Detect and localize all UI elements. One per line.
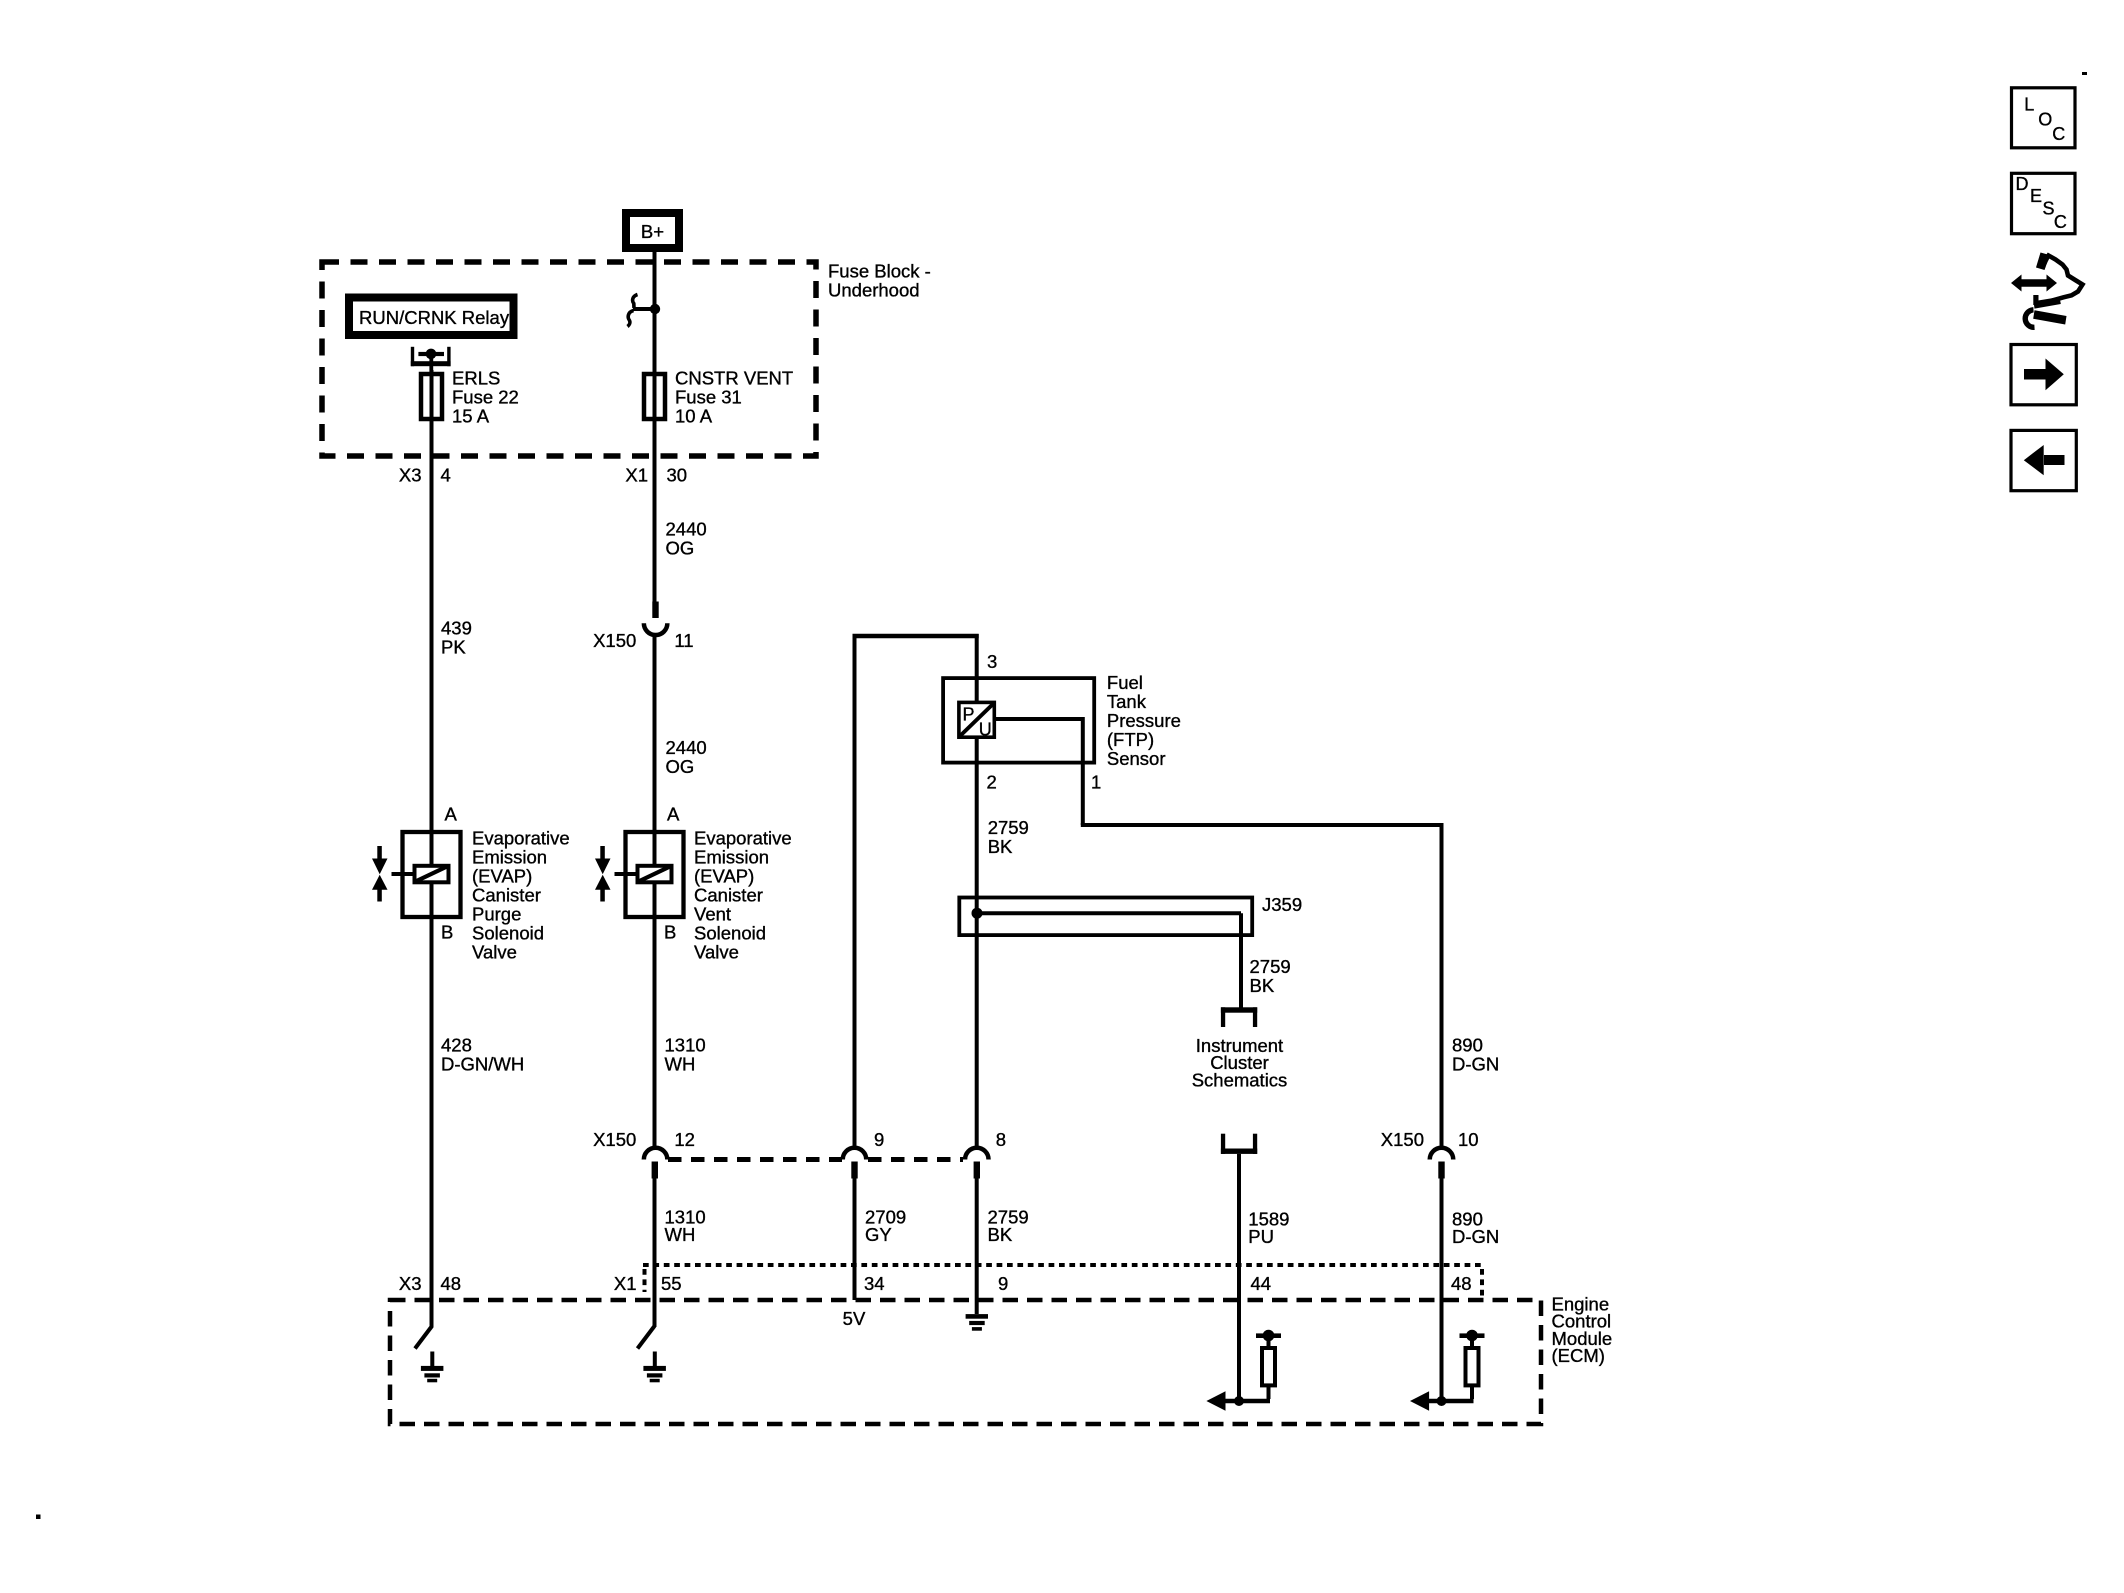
svg-text:D: D: [2016, 174, 2029, 194]
ECM driver switch pin X3-48: [415, 1326, 432, 1349]
svg-text:Purge: Purge: [472, 904, 521, 925]
svg-text:10: 10: [1458, 1129, 1479, 1150]
instrument cluster connector lower half: [1221, 1134, 1257, 1154]
svg-text:Schematics: Schematics: [1192, 1069, 1288, 1090]
svg-text:Emission: Emission: [472, 847, 547, 868]
svg-text:U: U: [979, 719, 992, 739]
svg-text:Fuse 31: Fuse 31: [675, 387, 742, 408]
pin label X3 4: [399, 465, 451, 486]
vent valve description text: [694, 828, 792, 963]
wire 2709 GY vertical (5V reference, X150-9 up and over to FTP pin 3): [853, 634, 979, 1147]
page speck top right: [2082, 72, 2087, 75]
svg-text:9: 9: [998, 1273, 1008, 1294]
wire 2709 GY lower (X150-9 to ECM 34): [855, 1178, 907, 1300]
svg-text:D-GN: D-GN: [1452, 1054, 1499, 1075]
svg-text:Fuel: Fuel: [1107, 672, 1143, 693]
fuse F22 ERLS 15A: [421, 368, 519, 427]
svg-text:B+: B+: [641, 221, 664, 242]
wire 428 D-GN/WH (purge valve to ECM X3-48): [432, 919, 525, 1327]
svg-text:Fuse 22: Fuse 22: [452, 387, 519, 408]
fuse block label: [828, 261, 931, 301]
svg-text:X150: X150: [1381, 1129, 1424, 1150]
ECM driver switch pin X1-55: [638, 1326, 655, 1349]
sidebar icon back arrow box: [2011, 430, 2076, 490]
svg-text:Canister: Canister: [694, 885, 763, 906]
svg-text:WH: WH: [665, 1054, 696, 1075]
connector X150 pin 8: [965, 1129, 1006, 1179]
sidebar icon LOC box: [2012, 88, 2076, 148]
svg-text:C: C: [2054, 212, 2067, 232]
FTP sensor description text: [1107, 672, 1181, 769]
ground inside ECM below X1-55: [643, 1352, 666, 1383]
svg-text:D-GN/WH: D-GN/WH: [441, 1054, 524, 1075]
B+ power feed box: [626, 213, 679, 248]
svg-text:A: A: [445, 804, 458, 825]
pull-up resistor at ECM pin 48: [1410, 1330, 1485, 1411]
svg-text:15 A: 15 A: [452, 406, 490, 427]
fuel tank pressure FTP sensor: [943, 678, 1094, 763]
svg-text:P: P: [963, 704, 975, 724]
pull-up resistor at ECM pin 44: [1206, 1330, 1281, 1411]
svg-text:2: 2: [987, 772, 997, 793]
svg-text:48: 48: [441, 1273, 462, 1294]
svg-text:PU: PU: [1248, 1226, 1274, 1247]
svg-text:4: 4: [441, 465, 451, 486]
svg-text:34: 34: [864, 1273, 885, 1294]
svg-text:Solenoid: Solenoid: [472, 923, 544, 944]
EVAP canister purge solenoid valve: [372, 830, 461, 943]
svg-text:BK: BK: [988, 1224, 1013, 1245]
purge valve description text: [472, 828, 570, 963]
splice J359: [959, 894, 1302, 1008]
svg-text:X3: X3: [399, 1273, 422, 1294]
svg-text:Sensor: Sensor: [1107, 748, 1166, 769]
svg-text:(EVAP): (EVAP): [694, 866, 754, 887]
svg-text:A: A: [667, 804, 680, 825]
wire 1310 WH upper label (vent valve to X150-12): [655, 919, 706, 1147]
ECM label text: [1552, 1294, 1613, 1367]
sidebar icon wrench/hand (how to use): [2011, 253, 2083, 328]
ground inside ECM at pin 9: [966, 1314, 988, 1331]
svg-text:2759: 2759: [988, 817, 1029, 838]
svg-text:J359: J359: [1262, 894, 1302, 915]
pin label X1 30: [625, 465, 687, 486]
svg-text:B: B: [664, 922, 676, 943]
svg-text:RUN/CRNK Relay: RUN/CRNK Relay: [359, 307, 510, 328]
relay RUN/CRNK box: [349, 298, 514, 336]
svg-text:(EVAP): (EVAP): [472, 866, 532, 887]
svg-text:2759: 2759: [1250, 956, 1291, 977]
svg-text:2440: 2440: [666, 519, 707, 540]
wire FTP pin 2 down (2759 BK): [977, 737, 1029, 1147]
connector X150 pin 9: [843, 1129, 885, 1179]
svg-text:X3: X3: [399, 465, 422, 486]
fuse F31 CNSTR VENT 10A: [644, 368, 793, 427]
svg-text:C: C: [2052, 124, 2065, 144]
svg-text:PK: PK: [441, 637, 466, 658]
svg-text:X150: X150: [593, 630, 636, 651]
svg-text:10 A: 10 A: [675, 406, 713, 427]
svg-text:BK: BK: [1250, 975, 1275, 996]
svg-text:2440: 2440: [666, 737, 707, 758]
svg-text:3: 3: [987, 651, 997, 672]
wire fuse31 down to connector X150-11: [653, 419, 657, 603]
wire 1310 WH lower (X150-12 to ECM X1-55): [655, 1178, 706, 1327]
wire B+ down to Fuse 31: [653, 252, 657, 372]
svg-text:9: 9: [874, 1129, 884, 1150]
svg-text:D-GN: D-GN: [1452, 1226, 1499, 1247]
svg-text:55: 55: [661, 1273, 682, 1294]
svg-text:Tank: Tank: [1107, 691, 1147, 712]
svg-text:Solenoid: Solenoid: [694, 923, 766, 944]
svg-text:(ECM): (ECM): [1552, 1345, 1605, 1366]
dotted ECM connector boundary line: [643, 1265, 1482, 1296]
wire FTP pin 1 to X150-10 (890 D-GN): [996, 717, 1442, 1147]
wire 1589 PU (cluster to ECM 44): [1239, 1154, 1289, 1401]
wire 2440 OG lower (X150-11 to vent valve): [655, 634, 707, 830]
svg-text:8: 8: [996, 1129, 1006, 1150]
connector X150 pin 11: [593, 602, 694, 652]
wire 2759 BK lower (X150-8 to ECM 9): [977, 1178, 1029, 1314]
engine control module dashed box: [390, 1300, 1541, 1424]
svg-text:X1: X1: [625, 465, 648, 486]
ground inside ECM below X3-48: [421, 1352, 444, 1383]
svg-text:(FTP): (FTP): [1107, 729, 1154, 750]
svg-text:Evaporative: Evaporative: [472, 828, 570, 849]
svg-text:E: E: [2030, 186, 2042, 206]
svg-text:1310: 1310: [665, 1035, 706, 1056]
svg-text:OG: OG: [666, 538, 695, 559]
sidebar icon forward arrow box: [2011, 345, 2076, 405]
svg-text:Emission: Emission: [694, 847, 769, 868]
svg-text:GY: GY: [865, 1224, 892, 1245]
svg-text:30: 30: [667, 465, 688, 486]
page speck bottom left: [36, 1515, 41, 1520]
relay contact symbol: [411, 347, 451, 373]
connector X150 pin 12: [593, 1129, 695, 1179]
svg-text:44: 44: [1251, 1273, 1272, 1294]
dashed connector line X150 row: [668, 1157, 842, 1162]
svg-text:1: 1: [1091, 772, 1101, 793]
svg-text:428: 428: [441, 1035, 472, 1056]
svg-text:Underhood: Underhood: [828, 280, 920, 301]
svg-text:WH: WH: [665, 1224, 696, 1245]
sidebar icon DESC box: [2012, 173, 2076, 233]
svg-text:ERLS: ERLS: [452, 368, 500, 389]
fuse block underhood dashed box: [322, 262, 816, 456]
instrument cluster schematics text: [1192, 1035, 1288, 1090]
wire 890 D-GN lower (X150-10 to ECM 48): [1442, 1178, 1500, 1401]
svg-text:Valve: Valve: [694, 942, 739, 963]
svg-text:890: 890: [1452, 1035, 1483, 1056]
svg-text:X1: X1: [614, 1273, 637, 1294]
svg-text:11: 11: [674, 630, 693, 651]
svg-text:Canister: Canister: [472, 885, 541, 906]
wire 439 PK (fuse 22 to purge valve): [432, 421, 472, 830]
instrument cluster connector upper half: [1221, 1007, 1257, 1027]
svg-text:Valve: Valve: [472, 942, 517, 963]
svg-text:Fuse Block -: Fuse Block -: [828, 261, 931, 282]
EVAP canister vent solenoid valve: [595, 830, 684, 943]
svg-text:48: 48: [1451, 1273, 1472, 1294]
svg-text:CNSTR VENT: CNSTR VENT: [675, 368, 793, 389]
svg-text:OG: OG: [666, 756, 695, 777]
svg-text:Vent: Vent: [694, 904, 731, 925]
connector X150 pin 10: [1381, 1129, 1479, 1179]
svg-text:BK: BK: [988, 836, 1013, 857]
svg-text:O: O: [2038, 110, 2052, 130]
svg-text:B: B: [441, 922, 453, 943]
svg-text:Pressure: Pressure: [1107, 710, 1181, 731]
svg-text:439: 439: [441, 618, 472, 639]
svg-text:S: S: [2043, 199, 2055, 219]
svg-text:5V: 5V: [843, 1308, 866, 1329]
svg-text:12: 12: [674, 1129, 695, 1150]
svg-text:Evaporative: Evaporative: [694, 828, 792, 849]
svg-text:X150: X150: [593, 1129, 636, 1150]
svg-text:L: L: [2024, 95, 2034, 115]
bus tap hook on B+ wire: [628, 295, 661, 327]
